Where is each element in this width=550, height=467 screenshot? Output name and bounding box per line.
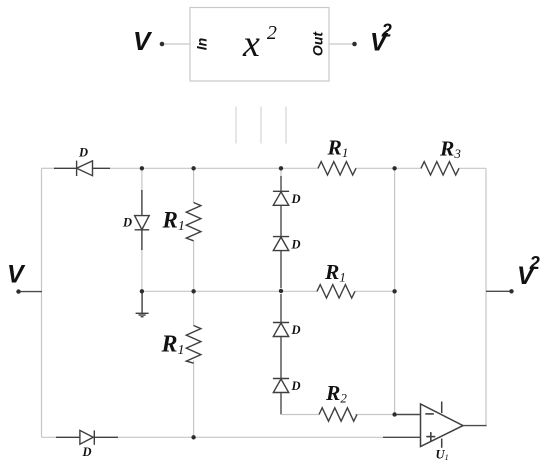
connector line 2 bbox=[260, 107, 262, 144]
wire middle segment a bbox=[142, 290, 318, 292]
node middle wire junction 4 bbox=[392, 289, 396, 293]
wire block input bbox=[165, 43, 190, 45]
resistor R2 bbox=[319, 408, 357, 421]
svg-text:D: D bbox=[291, 237, 301, 251]
wire V input lead bbox=[19, 291, 43, 293]
resistor R3 bbox=[421, 162, 459, 175]
resistor R1 top horizontal bbox=[318, 162, 356, 175]
svg-text:V: V bbox=[133, 26, 153, 56]
wire bottom segment a bbox=[42, 436, 59, 438]
connector line 3 bbox=[285, 107, 287, 144]
diode D top-left bbox=[54, 161, 110, 176]
wire bottom segment b bbox=[116, 436, 383, 438]
node block output dot bbox=[352, 42, 357, 47]
wire diode chain lead upper bbox=[280, 176, 282, 288]
ground bbox=[136, 293, 149, 317]
node bottom wire junction bbox=[191, 435, 195, 439]
svg-text:D: D bbox=[82, 445, 92, 459]
wire top segment b bbox=[108, 167, 319, 169]
svg-text:D: D bbox=[291, 379, 301, 393]
svg-text:Out: Out bbox=[310, 31, 326, 56]
diode chain D3 (pointing up) bbox=[273, 323, 289, 337]
svg-text:D: D bbox=[291, 323, 301, 337]
resistor R1 vertical upper bbox=[186, 203, 201, 241]
diode chain D1 (pointing up) bbox=[273, 191, 289, 205]
node middle wire junction 3 bbox=[279, 289, 283, 293]
wire top segment c bbox=[355, 167, 422, 169]
wire R2 row segment b bbox=[355, 414, 393, 416]
svg-text:D: D bbox=[78, 146, 88, 160]
wire top segment d bbox=[458, 167, 486, 169]
wire diode chain top stub bbox=[280, 168, 282, 178]
connector line 1 bbox=[235, 107, 237, 144]
node V squared output terminal bbox=[509, 289, 513, 293]
node top wire junction 2 bbox=[191, 166, 195, 170]
wire column R1 upper bbox=[193, 168, 195, 202]
node middle wire junction 1 (ground node) bbox=[140, 289, 144, 293]
wire left rail bbox=[41, 168, 43, 437]
wire diode chain lead lower bbox=[280, 294, 282, 415]
resistor R1 middle horizontal bbox=[317, 285, 355, 298]
wire top segment a bbox=[42, 167, 58, 169]
wire op-amp non-inverting input lead bbox=[383, 436, 421, 438]
resistor R1 vertical lower bbox=[186, 326, 201, 364]
block diagram box bbox=[190, 8, 329, 82]
wire right rail bbox=[485, 168, 487, 425]
wire V squared output lead bbox=[486, 290, 511, 292]
node top wire junction 4 bbox=[392, 166, 396, 170]
op-amp U1 bbox=[421, 402, 464, 448]
wire summing column bbox=[394, 168, 396, 414]
wire column D-left upper bbox=[141, 168, 143, 192]
svg-text:V: V bbox=[7, 261, 26, 289]
wire op-amp output lead bbox=[463, 425, 487, 427]
node block input dot bbox=[160, 42, 165, 47]
wire middle segment b bbox=[355, 290, 395, 292]
wire column R1 lower bbox=[193, 361, 195, 438]
node top wire junction 1 bbox=[140, 166, 144, 170]
diode D bottom (pointing right) bbox=[56, 430, 118, 444]
node summing junction at R2 bbox=[392, 412, 396, 416]
node middle wire junction 2 bbox=[191, 289, 195, 293]
node V input terminal bbox=[16, 289, 20, 293]
diode chain D2 (pointing up) bbox=[273, 237, 289, 251]
diode D left-column (pointing down) bbox=[135, 190, 150, 250]
wire column R1 middle bbox=[193, 241, 195, 326]
wire R2 row segment a bbox=[281, 414, 319, 416]
wire op-amp inverting input lead bbox=[393, 414, 421, 416]
svg-text:In: In bbox=[194, 38, 210, 50]
svg-text:D: D bbox=[122, 216, 132, 230]
diode chain D4 (pointing up) bbox=[273, 379, 289, 393]
svg-text:D: D bbox=[291, 192, 301, 206]
node top wire junction 3 bbox=[279, 166, 283, 170]
wire block output bbox=[330, 43, 353, 45]
wire column D-left lower bbox=[141, 248, 143, 291]
